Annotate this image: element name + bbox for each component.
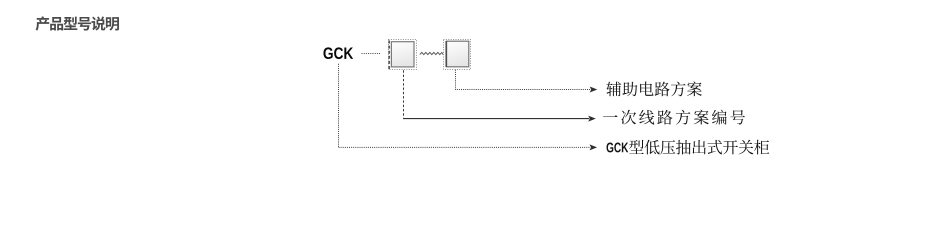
wire dotted to arrow [339, 146, 591, 148]
label 辅助电路方案 [606, 81, 702, 96]
wire dashed box 1 to box 2 [420, 52, 443, 54]
label 型低压抽出式开关柜 [629, 140, 769, 155]
arrowhead to 一次线路方案编号 [588, 116, 596, 122]
arrowhead to GCK 型低压抽出式开关柜 [590, 144, 598, 150]
wire dashed from box 1 down [403, 70, 405, 118]
label GCK (line 3) [607, 143, 629, 153]
box 2 [446, 41, 468, 67]
box 1 selection marquee [389, 40, 417, 71]
wire dotted from box 2 down and right [456, 70, 591, 90]
box 2 selection marquee [444, 40, 471, 70]
arrowhead to 辅助电路方案 [590, 87, 598, 93]
wire solid to arrow [403, 118, 589, 120]
wire dotted from GCK down [338, 64, 340, 148]
label 一次线路方案编号 [603, 110, 745, 125]
box 1 [391, 42, 414, 67]
title 产品型号说明 [36, 16, 119, 30]
label GCK [323, 47, 353, 59]
wire dotted GCK to box 1 [362, 53, 381, 55]
